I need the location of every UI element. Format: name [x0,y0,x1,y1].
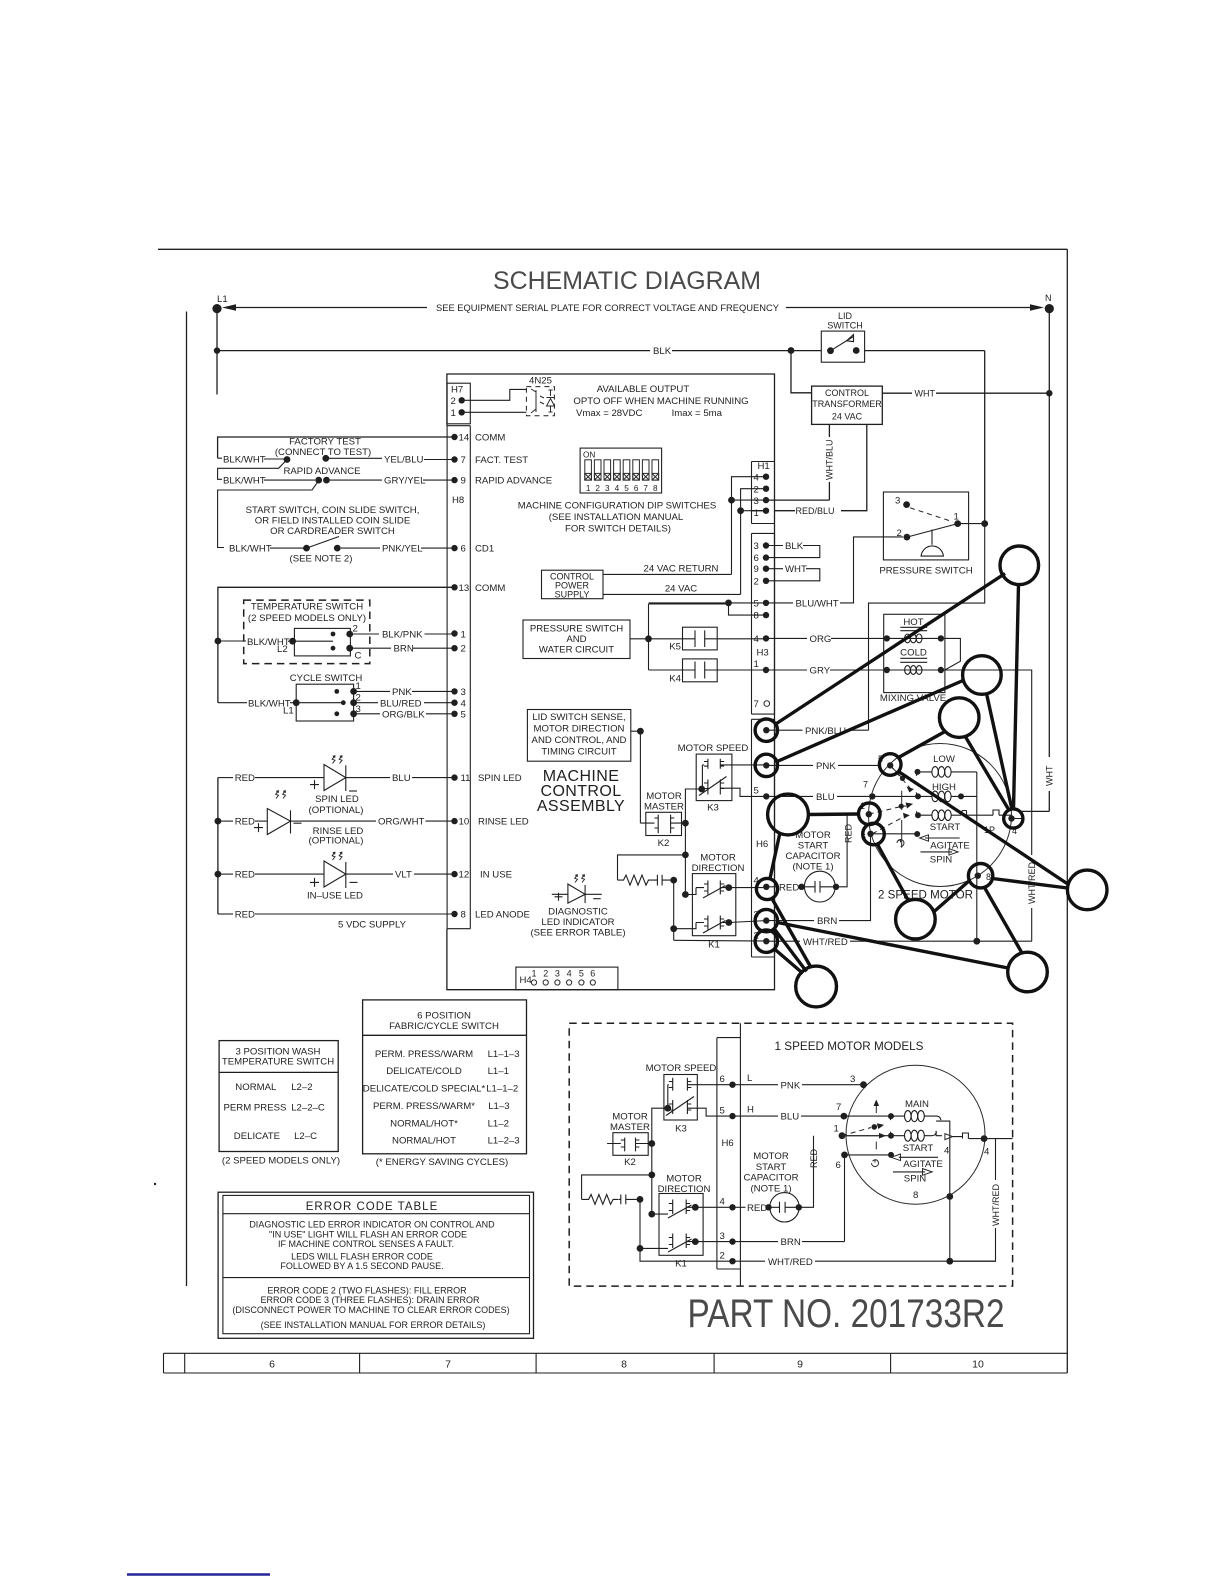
svg-text:WHT/RED: WHT/RED [991,1184,1001,1226]
H8 pin 13 [451,583,505,594]
svg-text:3: 3 [754,496,759,507]
svg-text:H6: H6 [756,839,768,850]
annotation line RED circle to bottom-left circle [773,900,812,968]
svg-text:(OPTIONAL): (OPTIONAL) [309,836,364,847]
agitate arrow [920,835,970,852]
svg-text:5: 5 [624,484,629,493]
svg-text:5: 5 [754,785,759,796]
highlight circle motor terminal 4 [1004,809,1023,828]
wire MAIN right to WHT/RED row [936,1121,950,1261]
svg-text:DELICATE: DELICATE [234,1131,280,1142]
wire BLU/RED to H8 pin 4 [354,698,467,709]
svg-text:(NOTE 1): (NOTE 1) [750,1183,791,1194]
junction L1/BLK [214,347,220,353]
junction R/C out [670,877,677,884]
mixing valve assembly [884,614,945,692]
svg-text:9: 9 [461,476,466,487]
factory test switch S1 [275,437,371,463]
svg-text:WHT: WHT [1045,765,1055,786]
svg-text:NORMAL/HOT: NORMAL/HOT [392,1136,456,1147]
svg-text:CYCLE SWITCH: CYCLE SWITCH [290,673,363,684]
svg-text:K3: K3 [707,803,719,814]
wire PNK to H8 pin 3 [354,687,466,698]
svg-text:7: 7 [643,484,648,493]
svg-text:6: 6 [754,553,759,564]
rapid advance row: BLK/WHT label [223,466,361,487]
svg-text:SPIN: SPIN [904,1174,926,1185]
highlight circle motor terminal 1 [859,803,881,825]
blue underline mark [127,1573,270,1575]
svg-text:6: 6 [634,484,639,493]
wire GRY/YEL to pin 9 [330,476,455,487]
junction on pin1 row [737,507,744,514]
svg-text:H4: H4 [520,975,533,986]
svg-text:SWITCH: SWITCH [827,321,863,331]
terminal 4 dot [1008,815,1014,821]
junction K1 lower left [670,925,677,932]
svg-text:L: L [747,1073,753,1084]
svg-text:PRESSURE SWITCH: PRESSURE SWITCH [879,566,972,577]
wire LOW right down to terminal 8 and WHT/RED row [976,772,978,941]
H3 pin 1 GRY [754,659,887,677]
svg-text:24 VAC: 24 VAC [832,412,863,422]
H8 pin 11 [451,773,521,784]
wire H1 pin3 row [732,499,767,501]
svg-text:START: START [756,1162,787,1173]
annotation line terminal 6 circle to below-motor circle [878,845,909,902]
error code table [218,1192,533,1338]
svg-text:OR CARDREADER SWITCH: OR CARDREADER SWITCH [270,526,395,537]
svg-text:WHT/RED: WHT/RED [768,1257,813,1268]
svg-text:7: 7 [461,455,466,466]
H3 pin 7 (unused) [754,699,770,710]
wire terminal 4 to WHT riser [1005,815,1022,818]
H8 pin 7 [451,455,528,466]
svg-text:2: 2 [720,1250,725,1261]
H3 pin 2 [754,576,770,587]
svg-text:IN–USE LED: IN–USE LED [307,891,363,902]
svg-text:(2 SPEED MODELS ONLY): (2 SPEED MODELS ONLY) [222,1156,340,1167]
highlight circle motor terminal 8 [968,864,992,888]
wire K3 to K2 junction [652,1108,668,1175]
svg-text:L1–3: L1–3 [488,1101,509,1112]
highlight circle pressure switch top [1000,546,1039,585]
annotation line capacitor circle to RED pin circle [770,833,780,879]
svg-text:ERROR CODE TABLE: ERROR CODE TABLE [306,1201,439,1213]
annotation line terminal 8 circle to bottom-right circle [985,888,1023,954]
svg-text:4N25: 4N25 [529,376,552,387]
wire 5VDC supply to pin 8 [218,910,455,931]
wire second bus with diagonal to factory test switch [218,460,287,480]
start switch dot (1-speed) [888,1152,894,1158]
svg-text:H1: H1 [758,461,770,472]
wire K1 upper to H6 pin4 RED row [729,887,766,889]
svg-text:PNK: PNK [781,1080,801,1091]
svg-text:K4: K4 [669,674,681,685]
svg-text:START: START [903,1143,934,1154]
svg-text:1: 1 [754,508,759,519]
start switch S3 (open) [290,537,353,565]
contact K5 [649,627,767,652]
svg-text:BLU: BLU [781,1112,800,1123]
H6 pin 3 BRN [754,834,871,927]
svg-text:CAPACITOR: CAPACITOR [743,1173,798,1184]
svg-text:RINSE LED: RINSE LED [478,817,529,828]
svg-text:ERROR CODE 3 (THREE FLASHE: ERROR CODE 3 (THREE FLASHES): DRAIN ERRO… [260,1295,480,1305]
wire terminal 4 to dashed edge with WHT/RED drop [950,1139,1013,1262]
svg-text:CD1: CD1 [475,544,494,555]
wire K1 lower to BRN row [729,921,766,923]
wire into K1 upper contact [685,888,696,895]
svg-text:7: 7 [445,1359,451,1371]
svg-text:2: 2 [897,528,902,539]
centrifugal switch and terminal 4 [962,810,1017,836]
control power supply box [542,570,604,599]
svg-text:L1: L1 [217,294,228,305]
svg-text:SPIN LED: SPIN LED [315,794,359,805]
svg-text:BLK/WHT: BLK/WHT [223,476,266,487]
svg-text:CONTROL: CONTROL [825,388,869,398]
highlight circle pin PNK [755,754,777,776]
svg-text:AND: AND [566,634,586,645]
svg-text:6: 6 [590,969,595,979]
1-speed motor terminal 7 [836,1102,891,1120]
highlight circle mid right [963,656,1002,695]
svg-text:(DISCONNECT POWER TO MACHIN: (DISCONNECT POWER TO MACHINE TO CLEAR ER… [232,1305,509,1315]
terminal 8 [975,872,991,882]
svg-text:6: 6 [269,1359,275,1371]
svg-text:NORMAL/HOT*: NORMAL/HOT* [390,1119,458,1130]
svg-text:3: 3 [850,1074,855,1085]
svg-text:MACHINE CONFIGURATION DIP S: MACHINE CONFIGURATION DIP SWITCHES [518,501,716,512]
H8 pin 12 [451,870,512,881]
svg-text:4: 4 [984,1147,990,1158]
svg-text:NORMAL: NORMAL [235,1082,277,1093]
annotation line BRN circle to bottom-left circle [774,929,807,972]
svg-text:PART NO. 201733R2: PART NO. 201733R2 [688,1292,1005,1336]
svg-text:MOTOR: MOTOR [700,853,736,864]
svg-text:BLU/WHT: BLU/WHT [796,598,839,609]
capacitor C1 [654,875,674,886]
svg-text:L1: L1 [283,706,294,717]
svg-text:(SEE INSTALLATION MANUAL FO: (SEE INSTALLATION MANUAL FOR ERROR DETAI… [261,1320,486,1330]
rinse LED D2 [218,791,364,847]
junction R/C [637,1196,644,1203]
wire RED/BLU transformer right secondary down [841,424,867,510]
svg-text:PERM. PRESS/WARM: PERM. PRESS/WARM [375,1049,473,1060]
hot solenoid coil L1 [887,637,941,639]
lid switch [821,311,864,362]
svg-text:L1–2–3: L1–2–3 [488,1136,520,1147]
junction WHT/RED row [973,938,980,945]
connector H3 strip [752,533,775,714]
svg-text:L1–2: L1–2 [488,1119,509,1130]
svg-text:1: 1 [451,408,456,419]
serial plate note wire with arrow into L1 [222,303,1040,314]
svg-text:L1–1–3: L1–1–3 [488,1049,520,1060]
wire K2 to K3 [685,789,701,823]
svg-text:MASTER: MASTER [644,802,684,813]
1-speed H6 pin 6 L [720,1073,864,1091]
svg-text:5: 5 [720,1106,725,1117]
junction lid-sense [637,728,644,735]
svg-text:CAPACITOR: CAPACITOR [785,851,840,862]
svg-text:L2–2: L2–2 [291,1082,312,1093]
svg-text:IN USE: IN USE [480,870,512,881]
wire H1 pin2 to 24VAC vertical [741,489,766,595]
svg-text:11: 11 [461,773,471,784]
footer strip [164,1353,1068,1373]
svg-text:N: N [1045,293,1052,303]
annotation line mixing circle to terminal 5 circle [899,732,946,758]
wire box to K5 junction [630,638,649,640]
contact K4 [649,659,767,685]
stray period [154,1183,156,1185]
svg-text:WHT/RED: WHT/RED [803,937,848,948]
K1 lower contact [696,916,732,934]
svg-text:OR FIELD INSTALLED COIN SL: OR FIELD INSTALLED COIN SLIDE [255,516,411,527]
svg-text:2: 2 [461,644,466,655]
1-speed H6 pin 2 WHT/RED [720,1250,996,1267]
svg-text:L2–2–C: L2–2–C [291,1103,325,1114]
svg-text:(OPTIONAL): (OPTIONAL) [309,805,364,816]
svg-text:LED ANODE: LED ANODE [475,910,530,921]
H3 pin 4 ORG [754,634,887,645]
svg-text:8: 8 [913,1190,918,1201]
annotation line terminal 8 circle to far-right circle [993,879,1068,889]
terminal 4 (1-speed) [981,1135,990,1157]
svg-text:8: 8 [653,484,658,493]
svg-text:FOR SWITCH DETAILS): FOR SWITCH DETAILS) [565,524,671,535]
svg-text:MOTOR: MOTOR [612,1112,648,1123]
motor start capacitor C2 [804,814,858,902]
wire H7 pin1 to opto [462,411,527,413]
terminal 7 (BLU) [863,780,916,800]
svg-text:PNK: PNK [392,687,412,698]
wire cold common WHT/RED riser [941,670,1032,941]
svg-text:AVAILABLE OUTPUT: AVAILABLE OUTPUT [597,384,690,395]
machine configuration dip switch block [580,448,662,493]
3 position wash temperature switch table [219,1041,340,1167]
1-speed relay K3 motor speed [646,1063,733,1135]
svg-text:FACT. TEST: FACT. TEST [475,455,528,466]
svg-text:WHT: WHT [785,564,807,575]
svg-text:24 VAC: 24 VAC [665,584,697,595]
svg-text:K2: K2 [658,838,670,849]
svg-text:ASSEMBLY: ASSEMBLY [537,798,625,815]
svg-text:START: START [798,841,829,852]
1-speed relay K2 motor master [607,1112,652,1169]
relay K2 motor master [640,791,685,849]
annotation line pressure circle to motor terminal 4 circle [1014,585,1019,810]
H8 pin 10 [451,817,528,828]
H3 pin 5 BLU/WHT [754,537,904,610]
N rail vertical [1022,309,1050,812]
wire H1 pin1 row [741,510,766,512]
lid switch sense box [527,710,630,762]
svg-text:3: 3 [461,687,466,698]
svg-text:4: 4 [754,473,760,484]
svg-text:4: 4 [754,634,760,645]
svg-text:L1–1–2: L1–1–2 [486,1084,518,1095]
annotation line PNK/BLU to pressure circle [777,574,1006,724]
cold solenoid coil L2 [887,669,941,671]
svg-text:Imax = 5ma: Imax = 5ma [672,408,723,419]
feedback loop to resistor [582,1175,652,1200]
wire lid-sense to K2 vertical [631,731,641,823]
annotation line capacitor circle to terminal 1 circle [809,812,859,816]
highlight circle bottom right [1008,952,1048,992]
pressure switch and water circuit box [523,620,630,659]
junction on pin3 row [728,497,735,504]
svg-text:OPTO OFF WHEN MACHINE RUNN: OPTO OFF WHEN MACHINE RUNNING [573,396,748,407]
highlight circle bottom-left [796,966,837,1007]
svg-text:K1: K1 [675,1259,687,1270]
wire pin5/8 bus to K5 row [649,603,729,605]
junction rinse row [215,818,222,825]
1-speed resistor R2 [582,1195,619,1205]
junction BLK/pressure [981,520,988,527]
MAIN winding [888,1099,941,1122]
svg-text:RAPID ADVANCE: RAPID ADVANCE [475,476,552,487]
agitate arrow (1-speed) [891,1154,943,1170]
relay K1 motor direction [692,853,745,951]
1 speed models dashed enclosure [569,1023,1012,1286]
svg-text:9: 9 [797,1359,803,1371]
junction in-use row [215,871,222,878]
svg-text:PNK/YEL: PNK/YEL [382,544,423,555]
highlight circle motor terminal 6 [863,823,885,845]
svg-text:(2 SPEED MODELS ONLY): (2 SPEED MODELS ONLY) [248,613,366,624]
H8 pin 6 [451,544,494,555]
COLD label [884,648,945,674]
wire R/C junction down to K1 lower [673,880,675,940]
wire ORG/BLK to H8 pin 5 [354,709,466,720]
svg-text:"IN USE" LIGHT WILL FLASH: "IN USE" LIGHT WILL FLASH AN ERROR CODE [269,1229,467,1239]
H6 pin PNK [763,761,880,772]
svg-text:START SWITCH, COIN SLIDE S: START SWITCH, COIN SLIDE SWITCH, [246,505,420,516]
svg-text:5: 5 [579,969,584,979]
svg-text:ORG/WHT: ORG/WHT [378,817,425,828]
wire junction down to K4 row [648,604,650,670]
svg-text:(SEE NOTE 2): (SEE NOTE 2) [290,554,353,565]
rotor linkage lines [869,765,914,847]
svg-text:COMM: COMM [475,583,505,594]
mixing valve right bracket [941,638,961,669]
svg-text:LID SWITCH SENSE,: LID SWITCH SENSE, [532,712,625,723]
svg-text:MASTER: MASTER [610,1122,650,1133]
svg-text:TIMING CIRCUIT: TIMING CIRCUIT [541,746,616,757]
annotation line mid-right circle to terminal 4 circle [987,694,1013,810]
junction K1 lower [637,1245,644,1252]
available output note [573,384,748,419]
1-speed capacitor caption [743,1151,798,1194]
svg-text:MOTOR: MOTOR [646,791,682,802]
wire BLU to pin 11 [359,773,455,784]
svg-text:8: 8 [461,910,466,921]
svg-text:BLU: BLU [392,773,411,784]
svg-text:24 VAC RETURN: 24 VAC RETURN [644,564,719,575]
svg-text:VLT: VLT [395,870,412,881]
highlight circle pin WHT/RED [755,930,777,952]
wire RED/BLU to H1 pin 1 [752,510,796,512]
svg-text:ON: ON [583,451,595,460]
svg-text:L1–1: L1–1 [488,1066,509,1077]
svg-text:6 POSITION: 6 POSITION [417,1011,471,1022]
wire PNK/YEL to pin 6 [341,544,455,555]
svg-text:COMM: COMM [475,433,505,444]
svg-text:DIAGNOSTIC LED ERROR INDICA: DIAGNOSTIC LED ERROR INDICATOR ON CONTRO… [249,1220,495,1230]
svg-text:4: 4 [615,484,620,493]
svg-text:7: 7 [754,699,759,710]
wire L1 down to BLK rail [216,309,218,395]
annotation line PNK to mid-right circle [777,681,963,762]
1-speed motor start capacitor C3 [769,1136,820,1222]
border right line [1066,249,1068,1373]
annotation line WHT/RED circle to bottom-left circle [775,949,804,974]
svg-text:K3: K3 [675,1124,687,1135]
svg-text:AGITATE: AGITATE [930,840,970,851]
junction K5 [645,635,652,642]
optocoupler 4N25 [526,376,554,416]
svg-text:(SEE ERROR TABLE): (SEE ERROR TABLE) [530,927,625,938]
connector H1 [752,461,775,524]
svg-text:1: 1 [531,969,536,979]
rapid advance switch S2 (closed) [315,477,330,484]
wire H7 pin2 to opto [462,389,527,400]
diagnostic LED D4 [530,875,625,939]
svg-text:3: 3 [720,1231,725,1242]
control transformer T1 [812,386,883,424]
svg-text:H3: H3 [757,648,769,659]
highlight circle capacitor row [768,794,809,835]
svg-text:2: 2 [595,484,600,493]
svg-text:HOT: HOT [903,617,923,628]
svg-text:C: C [355,651,362,662]
node N [1045,293,1054,313]
terminal 5 (PNK) [878,754,893,769]
annotation line terminal 5 circle to far-right circle [899,772,1069,885]
1-speed motor terminal 6 [836,1152,892,1242]
rotor linkage (1-speed) [842,1100,886,1167]
svg-text:GRY/YEL: GRY/YEL [384,476,426,487]
svg-text:1: 1 [586,484,591,493]
svg-text:2: 2 [356,693,361,704]
svg-text:DIAGNOSTIC: DIAGNOSTIC [548,907,608,918]
HIGH winding [915,782,977,802]
in-use LED D3 [218,852,363,901]
svg-text:AND CONTROL, AND: AND CONTROL, AND [532,735,627,746]
svg-text:MOTOR SPEED: MOTOR SPEED [646,1063,717,1074]
svg-text:H: H [747,1105,754,1116]
BLK rail wire [217,350,985,352]
svg-text:PNK: PNK [816,761,836,772]
svg-text:2: 2 [754,576,759,587]
resistor R1 [618,875,655,885]
svg-text:GRY: GRY [810,666,831,677]
svg-text:TEMPERATURE SWITCH: TEMPERATURE SWITCH [222,1057,334,1068]
svg-text:RED: RED [235,870,255,881]
LOW winding [915,754,977,777]
svg-text:1: 1 [461,630,466,641]
svg-text:PERM. PRESS/WARM*: PERM. PRESS/WARM* [373,1101,475,1112]
svg-text:4: 4 [567,969,572,979]
svg-text:K5: K5 [669,642,681,653]
junction N/WHT [1046,390,1052,396]
wire BLK down to PNK/BLU feed [869,524,985,731]
border top line [158,248,1067,250]
svg-text:COLD: COLD [900,648,927,659]
